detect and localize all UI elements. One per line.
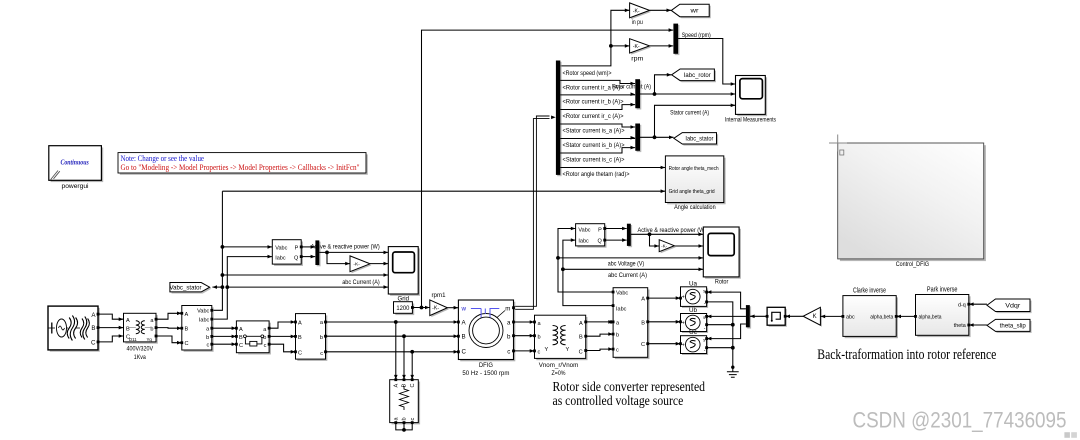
wire Speed mux to Internal Measurements scope xyxy=(678,39,735,86)
svg-text:400V/320V: 400V/320V xyxy=(127,346,154,353)
svg-text:Rotor current (A): Rotor current (A) xyxy=(612,84,651,91)
wire abc current to Rotor scope xyxy=(563,268,703,272)
svg-text:Stator current (A): Stator current (A) xyxy=(670,110,709,117)
block power measurement rotor PQ xyxy=(576,224,607,248)
svg-text:abc Voltage (V): abc Voltage (V) xyxy=(608,260,644,267)
block three-phase V-I measurement grid xyxy=(182,306,214,352)
mux rotor PQ xyxy=(627,224,632,248)
goto tag Iabc_rotor xyxy=(672,69,716,82)
svg-text:wr: wr xyxy=(689,9,698,15)
mux stator current xyxy=(635,124,641,153)
svg-text:b: b xyxy=(616,333,619,339)
wire 1200 to rpm1 gain xyxy=(412,306,429,310)
svg-text:B: B xyxy=(462,333,466,340)
svg-text:Note: Change or see the value: Note: Change or see the value xyxy=(121,154,205,163)
scope Internal Measurements xyxy=(725,76,776,124)
mux Speed (rpm) xyxy=(673,24,679,55)
wire demux to source Ua xyxy=(707,290,746,309)
controlled voltage source Ua xyxy=(681,287,709,308)
gain -K- rpm xyxy=(630,39,652,63)
wire tap A to load xyxy=(394,322,398,380)
subsystem Angle calculation xyxy=(665,156,725,211)
wire bus selector out stator current is_b xyxy=(560,136,635,140)
svg-text:in pu: in pu xyxy=(632,20,643,26)
wire in pu gain to wr goto xyxy=(650,9,672,13)
junction rotor current xyxy=(653,92,657,96)
wire rotor Iabc to PQ block xyxy=(563,238,613,305)
svg-text:1200: 1200 xyxy=(396,305,409,312)
svg-text:B: B xyxy=(126,326,130,332)
wire tap B to load xyxy=(402,336,406,379)
svg-text:+: + xyxy=(682,321,685,327)
wire rotor Q to mux xyxy=(605,238,627,242)
wire Iabc to PQ block xyxy=(212,255,272,319)
wire Ub minus to rail xyxy=(707,324,733,326)
svg-text:<Stator current is_c (A)>: <Stator current is_c (A)> xyxy=(563,157,625,164)
svg-text:A: A xyxy=(185,312,189,318)
scope Grid xyxy=(388,247,420,303)
block powergui (Continuous) xyxy=(49,146,103,190)
svg-text:Q: Q xyxy=(598,239,603,245)
block rate transition (ZOH) xyxy=(767,307,787,327)
svg-text:A: A xyxy=(641,297,645,303)
wire DFIG c to Vnom transformer xyxy=(514,349,535,353)
svg-text:rpm: rpm xyxy=(631,57,643,63)
wire Vnom A to rotor measurement a xyxy=(586,320,613,324)
wire rotor measurement B to source Ub xyxy=(648,320,681,324)
wire Vnom C to rotor measurement c xyxy=(586,347,613,351)
svg-text:Iabc: Iabc xyxy=(199,317,210,323)
junction Vabc-PQ xyxy=(221,245,225,249)
junction load neutral xyxy=(402,428,406,432)
junction grid PQ xyxy=(325,251,329,255)
wire rotor P to mux xyxy=(605,227,627,231)
svg-text:b: b xyxy=(538,334,541,340)
svg-text:Iabc: Iabc xyxy=(275,255,286,261)
wire Vabc to PQ block xyxy=(222,245,272,249)
wire stator current mux to Iabc_stator goto xyxy=(640,136,674,140)
svg-text:a: a xyxy=(507,320,511,327)
svg-text:Iabc: Iabc xyxy=(578,239,589,245)
svg-text:-K-: -K- xyxy=(633,44,640,50)
block three-phase series branch xyxy=(296,314,328,361)
junction load tap A xyxy=(394,320,398,324)
svg-text:-K-: -K- xyxy=(432,306,439,312)
svg-text:Active & reactive power (W): Active & reactive power (W) xyxy=(311,244,380,251)
from tag theta_slip xyxy=(987,319,1032,333)
svg-text:Vnom_r/Vnom: Vnom_r/Vnom xyxy=(539,362,579,369)
svg-text:A: A xyxy=(239,327,243,333)
svg-text:P: P xyxy=(295,246,299,252)
svg-text:B: B xyxy=(579,334,583,340)
junction rail ground xyxy=(731,366,734,369)
svg-text:Uc: Uc xyxy=(689,329,697,336)
svg-text:1Kva: 1Kva xyxy=(134,354,146,361)
wire abc voltage to Rotor scope xyxy=(558,256,703,260)
wire DFIG b to Vnom transformer xyxy=(514,334,535,338)
svg-text:alpha,beta: alpha,beta xyxy=(919,315,942,321)
svg-text:b: b xyxy=(507,333,511,340)
junction rotor speed to rpm gain xyxy=(609,44,613,48)
demux rotor voltage command xyxy=(746,305,751,329)
svg-text:d-q: d-q xyxy=(958,302,966,308)
svg-text:B: B xyxy=(298,335,302,341)
svg-text:-K-: -K- xyxy=(353,262,360,268)
svg-text:Internal Measurements: Internal Measurements xyxy=(725,117,776,124)
wire rpm1 to DFIG w xyxy=(447,306,458,310)
wire rotor measurement A to source Ua xyxy=(648,296,681,300)
controlled voltage source Uc xyxy=(681,336,709,355)
svg-text:abc Current (A): abc Current (A) xyxy=(342,279,380,286)
port nubs on block edges xyxy=(97,227,971,424)
wire bus selector out rotor current ir_a xyxy=(560,80,635,85)
wire Vdqr to Park xyxy=(969,302,987,306)
svg-text:w: w xyxy=(461,305,467,312)
svg-text:Park inverse: Park inverse xyxy=(927,287,958,294)
svg-text:D11: D11 xyxy=(129,337,137,342)
svg-text:Y: Y xyxy=(566,347,570,353)
svg-text:Vabc: Vabc xyxy=(578,227,590,233)
junction speed reference xyxy=(420,306,424,310)
wire rotor PQ to scope xyxy=(631,233,703,237)
svg-text:Z=0%: Z=0% xyxy=(552,370,566,377)
svg-text:c: c xyxy=(207,343,210,349)
wire block3 c to DFIG C xyxy=(326,350,459,354)
svg-text:B: B xyxy=(641,320,645,326)
wire measurement a to breaker A xyxy=(212,326,236,330)
wire rotor PQ to gain xyxy=(650,234,660,248)
svg-text:alpha,beta: alpha,beta xyxy=(870,315,893,321)
block power measurement grid PQ xyxy=(272,240,303,266)
controlled voltage source Ub xyxy=(681,314,709,334)
wire P to grid mux xyxy=(301,245,315,249)
svg-text:Continuous: Continuous xyxy=(60,159,89,167)
wire Vnom B to rotor measurement b xyxy=(586,332,613,336)
svg-text:Vabc_stator: Vabc_stator xyxy=(170,284,202,291)
svg-text:+: + xyxy=(682,295,685,301)
wire transformer a to measurement A xyxy=(156,312,182,320)
subsystem Control_DFIG xyxy=(829,135,986,268)
svg-text:powergui: powergui xyxy=(62,183,89,190)
constant 1200 xyxy=(394,302,415,315)
svg-text:C: C xyxy=(185,341,189,347)
gain -K- rotor power xyxy=(659,240,676,254)
svg-text:A: A xyxy=(394,384,400,388)
junction rotor voltage xyxy=(556,256,560,260)
block three-phase source 400V xyxy=(48,306,100,352)
svg-text:C: C xyxy=(641,342,645,348)
wire breaker b to block3 B xyxy=(269,335,295,339)
gain -K- grid power xyxy=(350,256,372,273)
svg-text:b: b xyxy=(320,335,323,341)
wire rotor Vabc to PQ block xyxy=(558,227,613,292)
goto tag Iabc_stator xyxy=(674,133,718,146)
block three-phase RLC load xyxy=(390,380,420,425)
svg-text:Rotor angle theta_mech: Rotor angle theta_mech xyxy=(669,166,719,172)
svg-text:<Rotor current ir_c (A)>: <Rotor current ir_c (A)> xyxy=(563,113,624,120)
wire block3 b to DFIG B xyxy=(326,334,459,338)
wire demux to source Uc xyxy=(707,324,746,340)
wire wm to rpm gain xyxy=(611,44,630,48)
wire Uc minus to rail xyxy=(707,347,733,349)
svg-text:Active & reactive power (W): Active & reactive power (W) xyxy=(638,227,707,234)
svg-text:m: m xyxy=(505,305,510,312)
junction load tap C xyxy=(410,350,414,354)
wire abc current to Grid scope xyxy=(227,285,388,289)
wire block3 a to DFIG A xyxy=(326,320,459,324)
svg-text:Ub: Ub xyxy=(689,307,698,314)
svg-text:theta_slip: theta_slip xyxy=(1000,323,1026,330)
block transformer Vnom_r/Vnom xyxy=(535,315,588,377)
gain -K- rpm1 xyxy=(430,293,449,317)
svg-text:+: + xyxy=(682,343,685,349)
wire Vabc measurement vertical xyxy=(212,191,222,310)
svg-text:Rotor side converter represent: Rotor side converter represented xyxy=(553,379,706,394)
svg-text:<Rotor speed (wm)>: <Rotor speed (wm)> xyxy=(563,70,612,77)
svg-text:c: c xyxy=(538,349,541,355)
svg-text:Angle calculation: Angle calculation xyxy=(674,204,716,211)
svg-text:Control_DFIG: Control_DFIG xyxy=(896,261,929,268)
svg-text:Iabc: Iabc xyxy=(616,307,627,313)
watermark squares xyxy=(1064,432,1070,438)
svg-text:Back-traformation into rotor r: Back-traformation into rotor reference xyxy=(817,347,996,363)
svg-text:C: C xyxy=(239,343,243,349)
wire load neutral c xyxy=(404,423,412,430)
junction Vabc-scope xyxy=(221,273,225,277)
wire bus selector out rotor angle thetam xyxy=(560,166,665,170)
gain -K- in pu xyxy=(630,3,652,26)
svg-text:as controlled voltage source: as controlled voltage source xyxy=(553,393,684,408)
block transformer 400V/320V xyxy=(124,313,158,361)
svg-text:DFIG: DFIG xyxy=(479,362,493,369)
svg-text:b: b xyxy=(402,417,408,420)
ground symbol xyxy=(727,367,739,377)
junction rotor current xyxy=(561,267,565,271)
wire Park to Clarke xyxy=(896,315,915,319)
wire grid angle (from Vabc line) to Angle calculation xyxy=(222,189,665,193)
wire bus selector out stator current is_c xyxy=(560,146,635,153)
svg-text:B: B xyxy=(239,335,243,341)
svg-text:<Stator current is_b (A)>: <Stator current is_b (A)> xyxy=(563,142,625,149)
wire abc voltage to Grid scope xyxy=(222,273,388,277)
wire source B to transformer xyxy=(98,326,123,330)
svg-text:c: c xyxy=(264,343,267,349)
junction rail Uc xyxy=(731,346,735,350)
svg-text:c: c xyxy=(616,348,619,354)
wire breaker a to block3 A xyxy=(269,320,295,328)
wire measurement b to breaker B xyxy=(212,335,236,339)
junction rotor measurement a xyxy=(609,320,612,323)
junction load tap B xyxy=(402,334,406,338)
junction rotor PQ xyxy=(648,232,652,236)
svg-text:Vabc: Vabc xyxy=(275,246,287,252)
svg-text:Q: Q xyxy=(294,255,299,261)
wire speed reference (1200rpm) to Speed mux xyxy=(422,28,674,307)
svg-text:Iabc_stator: Iabc_stator xyxy=(685,136,713,143)
svg-text:theta: theta xyxy=(954,323,966,329)
goto tag wr xyxy=(671,4,711,18)
svg-text:K: K xyxy=(813,314,817,320)
svg-text:abc Current (A): abc Current (A) xyxy=(608,272,647,279)
svg-text:Rotor: Rotor xyxy=(715,279,729,286)
svg-text:C: C xyxy=(462,349,467,356)
svg-text:CSDN @2301_77436095: CSDN @2301_77436095 xyxy=(853,408,1067,433)
wire transformer c to measurement C xyxy=(156,336,182,345)
svg-text:P: P xyxy=(598,227,602,233)
svg-text:Yg: Yg xyxy=(147,337,153,342)
mux rotor current xyxy=(635,79,641,109)
wire measurement c to breaker C xyxy=(212,342,236,346)
wire grid gain to scope xyxy=(370,262,388,266)
wire rotor speed wm from bus selector xyxy=(560,9,629,66)
wire rotor gain to scope xyxy=(674,244,703,248)
svg-text:Vabc: Vabc xyxy=(616,291,628,297)
wire tap C to load xyxy=(410,352,414,380)
svg-text:C: C xyxy=(579,349,583,355)
svg-text:<Rotor current ir_b (A)>: <Rotor current ir_b (A)> xyxy=(563,99,624,106)
svg-text:A: A xyxy=(298,321,302,327)
svg-text:B: B xyxy=(402,384,408,388)
from tag Vdqr xyxy=(987,299,1032,313)
wire bus selector out rotor current ir_c xyxy=(560,103,635,110)
wire grid PQ to scope xyxy=(319,251,388,255)
gain K rotor voltage xyxy=(803,307,822,326)
svg-text:Grid angle theta_grid: Grid angle theta_grid xyxy=(669,189,715,195)
svg-text:b: b xyxy=(206,335,209,341)
svg-text:Vabc: Vabc xyxy=(197,309,209,315)
wire bus selector out rotor current ir_b xyxy=(560,92,635,96)
goto tag Vabc_stator xyxy=(170,283,212,294)
svg-text:B: B xyxy=(91,325,95,332)
wire rotor measurement C to source Uc xyxy=(648,342,681,346)
svg-text:c: c xyxy=(507,349,510,356)
wire demux to source Ub xyxy=(707,315,746,319)
svg-text:B: B xyxy=(185,327,189,333)
svg-text:Iabc_rotor: Iabc_rotor xyxy=(684,72,711,79)
wire load neutral b xyxy=(403,423,405,430)
wire load neutral a xyxy=(396,423,404,430)
svg-text:Speed (rpm): Speed (rpm) xyxy=(682,32,711,39)
svg-text:-K-: -K- xyxy=(661,244,668,249)
subsystem Clarke inverse xyxy=(843,288,898,339)
wire rate transition to demux xyxy=(750,315,767,319)
wire rotor current to Iabc_rotor goto xyxy=(655,73,672,94)
junction Vabc-tag xyxy=(221,285,225,289)
junction rail Ub xyxy=(731,323,735,327)
svg-text:C: C xyxy=(298,350,302,356)
bus selector xyxy=(556,61,562,177)
junction stator current xyxy=(653,135,657,139)
svg-text:C: C xyxy=(410,383,416,387)
svg-text:-K-: -K- xyxy=(633,8,640,14)
svg-text:c: c xyxy=(410,418,416,421)
svg-text:b: b xyxy=(150,326,153,332)
scope Rotor xyxy=(703,227,741,286)
wire Q to grid mux xyxy=(301,255,315,259)
wire grid PQ to gain xyxy=(327,252,350,265)
svg-text:50 Hz - 1500 rpm: 50 Hz - 1500 rpm xyxy=(462,370,509,377)
wire stator current to scope xyxy=(655,104,736,138)
block three-phase V-I measurement rotor xyxy=(613,288,649,359)
mux grid PQ xyxy=(315,240,320,266)
svg-text:rpm1: rpm1 xyxy=(432,293,447,299)
svg-text:<Rotor angle thetam (rad)>: <Rotor angle thetam (rad)> xyxy=(563,171,630,178)
svg-text:abc: abc xyxy=(846,315,855,321)
wire source A to transformer xyxy=(98,314,123,321)
svg-text:Y: Y xyxy=(545,347,549,353)
svg-text:Clarke inverse: Clarke inverse xyxy=(853,288,886,295)
wire breaker c to block3 C xyxy=(269,344,295,353)
junction Iabc-scope xyxy=(225,285,229,289)
svg-text:C: C xyxy=(91,340,96,347)
subsystem Park inverse xyxy=(916,287,971,338)
wire source minus rail xyxy=(707,302,733,367)
wire transformer b to measurement B xyxy=(156,326,182,330)
annotation note box xyxy=(118,153,368,175)
bus line from DFIG m port to bus selector (double line) xyxy=(514,116,556,310)
svg-text:A: A xyxy=(126,318,130,324)
block DFIG machine xyxy=(458,300,515,377)
svg-text:<Stator current is_a (A)>: <Stator current is_a (A)> xyxy=(563,128,625,135)
wire bus selector out stator current is_a xyxy=(560,124,635,129)
svg-text:c: c xyxy=(320,351,323,357)
svg-text:A: A xyxy=(579,321,583,327)
svg-text:Vdqr: Vdqr xyxy=(1005,302,1020,309)
wire Clarke to gain K xyxy=(821,315,843,319)
wire rpm gain to Speed mux xyxy=(650,44,674,48)
block three-phase breaker xyxy=(236,321,271,355)
wire gain K to rate transition xyxy=(785,315,803,319)
wire source C to transformer xyxy=(98,334,123,342)
wire DFIG a to Vnom transformer xyxy=(514,320,535,324)
wire rotor current mux to scope xyxy=(640,92,735,96)
wire theta_slip to Park xyxy=(969,323,987,327)
wire voltage to Vabc_stator goto xyxy=(212,285,222,289)
svg-text:Go to "Modeling -> Model Prope: Go to "Modeling -> Model Properties -> M… xyxy=(121,163,360,172)
